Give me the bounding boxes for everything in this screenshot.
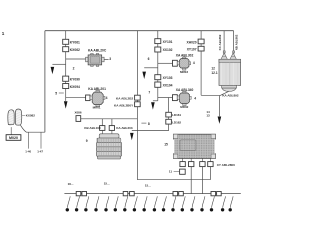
connector XX104 (155, 82, 161, 87)
connector XY101 (155, 39, 161, 44)
wire X086 to mid node (81, 118, 138, 120)
svg-text:7: 7 (148, 90, 150, 94)
wire east to injector ground (201, 94, 219, 96)
connector X086 (76, 116, 81, 122)
wire mid drop lower (136, 107, 138, 131)
connector KA ABL203 (109, 126, 114, 131)
svg-text:KA ABL892: KA ABL892 (222, 93, 238, 97)
svg-text:4: 4 (194, 96, 196, 100)
wire KY061 to KX062 (65, 44, 67, 46)
svg-text:KX062: KX062 (70, 48, 80, 52)
ground terminal dot 7 (123, 208, 126, 211)
ground bus connector pair 1 left (76, 192, 81, 196)
wire bus drop to XY101 (157, 31, 159, 39)
tick for callout 8 (141, 122, 146, 124)
ground terminal dot 10 (153, 208, 156, 211)
ground terminal dot 1 (66, 208, 69, 211)
svg-text:XH020: XH020 (187, 40, 197, 44)
wire ECU pin 3 stub (201, 158, 203, 161)
wire to damper left pin (101, 130, 103, 134)
actuator 9 (bellows) (96, 134, 121, 159)
ground terminal dot 17 (221, 208, 224, 211)
svg-text:KA ABL201: KA ABL201 (88, 87, 106, 91)
wire ground drop 6 (115, 196, 118, 208)
ECU 15 (173, 134, 217, 158)
connector KX062 (63, 47, 69, 52)
wire ground drop 18 (230, 196, 233, 208)
ground terminal dot 12 (171, 208, 174, 211)
connector LD161 (166, 112, 172, 117)
wire node to XA ABL302 (158, 62, 173, 64)
ECU pin connector 1 (180, 162, 185, 167)
wire ground drop 9 (144, 196, 147, 208)
wire ECU pin2 to ground bus (190, 167, 192, 194)
connector LD162 (166, 119, 172, 124)
svg-text:XA ABL302: XA ABL302 (176, 54, 194, 58)
svg-text:6: 6 (148, 57, 150, 61)
ground bus connector pair 1 right (82, 192, 87, 196)
wire filler (157, 68, 159, 75)
svg-text:KY061: KY061 (70, 41, 80, 45)
ECU pin connector 4 (208, 162, 213, 167)
connector XY103 (155, 75, 161, 80)
wire ground drop 1 (67, 196, 70, 208)
wire KA ABL2B2 to KA ABL2B0Y (136, 100, 138, 102)
svg-text:11: 11 (169, 170, 173, 174)
ground terminal dot 15 (200, 208, 203, 211)
svg-text:15: 15 (164, 142, 168, 146)
wire segment 7 upper (157, 68, 159, 75)
svg-text:KX082: KX082 (26, 114, 36, 118)
wire LD161 to LD162 (168, 117, 170, 119)
wire long drop right column (200, 51, 202, 95)
wire bottom route to pin4 (137, 179, 210, 181)
svg-text:MR01: MR01 (93, 105, 101, 109)
wire KY090 to KX094 (65, 81, 67, 83)
connector KA ABL2B2 (135, 95, 141, 100)
wire segment 5 (65, 89, 67, 101)
wire drop to LD161 (168, 98, 170, 113)
svg-text:NB ABL862: NB ABL862 (235, 34, 239, 50)
connector of KA ABL201 (86, 95, 90, 101)
wire segment 2 upper (65, 52, 67, 65)
wire coil dome to ground (219, 91, 228, 116)
svg-text:X086: X086 (75, 111, 82, 115)
wire mid long drop (136, 131, 138, 180)
wire dash to connector 11 (174, 171, 180, 173)
tick for callout 5 (59, 92, 64, 94)
wire lung to harness (20, 125, 45, 132)
solenoid valve KA ABL201 (90, 90, 105, 106)
wire ground drop 7 (125, 196, 128, 208)
wire ground drop 16 (212, 196, 215, 208)
wire ground drop 3 (86, 196, 89, 208)
wire node to KA ABL201 (66, 97, 86, 99)
ECU pin connector 3 (200, 162, 205, 167)
wire drop to KA ABL203 (111, 119, 113, 126)
wire ground drop 12 (173, 196, 176, 208)
wire ground drop 5 (106, 196, 109, 208)
wire jog to arrow A4 (153, 100, 158, 102)
wire node to XA ABL340 (158, 97, 173, 99)
ground terminal dot 9 (143, 208, 146, 211)
svg-text:15...: 15... (104, 182, 110, 186)
ground arrow A1 (51, 67, 55, 74)
wire bus drop to XH020 (200, 31, 202, 39)
svg-text:KA ABL2B0Y: KA ABL2B0Y (114, 103, 134, 107)
ground point body panels KX082 (8, 109, 22, 125)
ground terminal dot 16 (210, 208, 213, 211)
svg-text:M020: M020 (9, 136, 18, 140)
relay KA ABL20C (86, 54, 105, 67)
ground bus connector pair 2 left (123, 192, 128, 196)
ground terminal dot 5 (104, 208, 107, 211)
solenoid valve XA ABL340 (177, 91, 191, 105)
wire drop 1-47 (40, 132, 42, 148)
wire segment 6 (157, 52, 159, 68)
wire ground drop 2 (77, 196, 80, 208)
svg-text:LD161: LD161 (172, 113, 181, 117)
wire bus drop mid (136, 31, 138, 96)
svg-text:1: 1 (2, 31, 5, 36)
svg-text:KA ABL203: KA ABL203 (116, 126, 132, 130)
connector 11 (180, 169, 186, 174)
connector KA ABL2B0Y (135, 102, 141, 107)
wire ECU pin 2 stub (190, 158, 192, 161)
wire ECU pin3 to ground bus (201, 167, 203, 194)
ground arrow A6 (218, 117, 222, 124)
wire XH020 to XY107 (200, 44, 202, 47)
wire ground drop 13 (182, 196, 185, 208)
svg-text:LD162: LD162 (172, 120, 181, 124)
svg-text:KB ABL100: KB ABL100 (84, 126, 101, 130)
svg-text:2: 2 (73, 67, 75, 71)
connector KY090 (63, 76, 69, 81)
svg-text:1-47: 1-47 (37, 149, 43, 153)
wire bus drop to KY061 (65, 31, 67, 40)
wire NB ABL862 to coil 2 (233, 31, 235, 51)
svg-text:4: 4 (106, 96, 108, 100)
ground bus connector pair 4 right (217, 192, 222, 196)
wire harness left edge (44, 31, 46, 133)
ground terminal dot 2 (75, 208, 78, 211)
svg-text:MR02: MR02 (180, 105, 188, 109)
svg-text:KX094: KX094 (70, 85, 80, 89)
ground arrow A3 (142, 72, 146, 79)
wire to damper right pin (111, 130, 113, 134)
ignition coil assembly 12 (219, 51, 241, 92)
ground label M020 (6, 135, 21, 141)
ground terminal dot 3 (84, 208, 87, 211)
wire segment 2 lower (65, 64, 67, 76)
svg-text:XY ABL2800: XY ABL2800 (217, 163, 235, 167)
ground terminal dot 11 (162, 208, 165, 211)
svg-text:KY090: KY090 (70, 78, 80, 82)
wire KC ABL862 to coil 1 (223, 31, 225, 51)
wire ground drop 17 (223, 196, 226, 208)
wire segment 7 lower (157, 87, 159, 101)
solenoid valve XA ABL302 (177, 57, 190, 70)
wire ground drop 15 (202, 196, 205, 208)
wire ground drop 10 (155, 196, 158, 208)
wire XY103 to XX104 (157, 80, 159, 82)
ECU pin connector 2 (189, 162, 194, 167)
svg-text:KA ABL20C: KA ABL20C (88, 49, 107, 53)
wire XY101 to XX102 (157, 44, 159, 47)
svg-text:3: 3 (109, 57, 111, 61)
ground arrow A5 (130, 133, 134, 140)
ground terminal dot 14 (190, 208, 193, 211)
wire segment 8 (168, 124, 170, 131)
connector XY107 (198, 46, 204, 51)
ground terminal dot 6 (114, 208, 117, 211)
ground terminal dot 4 (94, 208, 97, 211)
wire stub 3 (104, 59, 109, 61)
connector KB ABL100 (100, 126, 105, 131)
ground terminal dot 18 (229, 208, 232, 211)
svg-text:1-40: 1-40 (25, 149, 31, 153)
svg-text:4: 4 (193, 61, 195, 65)
ground terminal dot 8 (133, 208, 136, 211)
wire node row to arrow A5 (132, 130, 169, 132)
svg-text:9: 9 (86, 139, 88, 143)
wire node to KA ABL20C (66, 58, 86, 60)
svg-text:15...: 15... (145, 183, 151, 187)
connector of XA ABL340 (173, 95, 178, 101)
svg-text:12.1: 12.1 (211, 71, 217, 75)
wire ground drop 11 (164, 196, 167, 208)
svg-text:5: 5 (55, 92, 57, 96)
svg-text:8: 8 (148, 122, 150, 126)
ground bus connector pair 3 right (179, 192, 184, 196)
svg-text:MR03: MR03 (180, 70, 188, 74)
svg-text:XY101: XY101 (163, 40, 173, 44)
ground bus connector pair 3 left (173, 192, 178, 196)
svg-text:13: 13 (206, 114, 210, 118)
wire jog to arrow A1 (52, 63, 65, 65)
wire ground drop 8 (135, 196, 138, 208)
wire jog to arrow A3 (144, 67, 158, 69)
wire drop 1-40 (27, 132, 29, 148)
wire ECU pin 1 stub (182, 158, 184, 161)
wire up to ECU pin4 (209, 167, 211, 180)
wire ECU pin 4 stub (209, 158, 211, 161)
svg-text:XY107: XY107 (187, 47, 197, 51)
svg-text:KA ABL2B2: KA ABL2B2 (116, 96, 133, 100)
connector KX094 (63, 84, 69, 89)
connector XX102 (155, 47, 161, 52)
svg-text:XY103: XY103 (163, 76, 173, 80)
svg-text:12: 12 (211, 66, 215, 70)
connector XH020 (198, 39, 204, 44)
leader line KX082 (22, 114, 25, 116)
connector KY061 (63, 39, 69, 44)
connector of XA ABL302 (173, 60, 178, 66)
svg-text:XX104: XX104 (163, 84, 173, 88)
wire ground drop 14 (192, 196, 195, 208)
wire ground drop 4 (96, 196, 99, 208)
wire harness top bus (45, 30, 234, 32)
svg-text:XA ABL340: XA ABL340 (176, 88, 194, 92)
ground bus connector pair 4 left (211, 192, 216, 196)
ground arrow A2 (64, 101, 68, 108)
ground terminal dot 13 (181, 208, 184, 211)
ground bus connector pair 2 right (130, 192, 135, 196)
ground arrow A4 (151, 102, 155, 109)
svg-text:16...: 16... (68, 182, 74, 186)
svg-text:XX102: XX102 (163, 48, 173, 52)
wire lung to M020 (10, 127, 12, 135)
wire ground bus (64, 193, 240, 195)
svg-text:KC ABL862: KC ABL862 (218, 34, 222, 50)
wire drop to KB ABL100 (101, 119, 103, 126)
